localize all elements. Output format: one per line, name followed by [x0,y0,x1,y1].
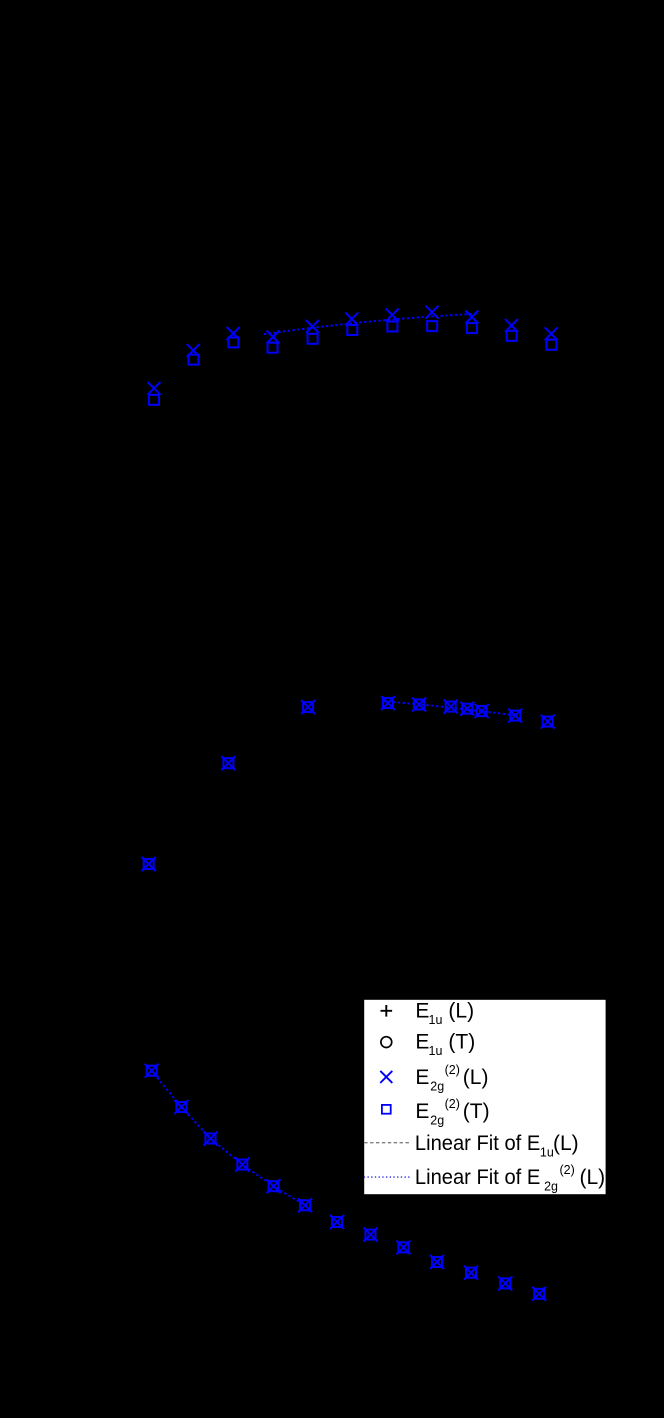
top panel E2g(2) (T) square marker 4 [268,343,278,353]
top panel E2g(2) (L) x-marker 7 [386,308,399,321]
top panel E2g(2) (T) square marker 5 [308,334,318,344]
svg-text:(L): (L) [580,1166,606,1189]
svg-text:Linear Fit of E: Linear Fit of E [415,1132,540,1155]
middle panel combined marker 6 [444,700,458,714]
svg-text:(T): (T) [448,1031,475,1054]
svg-text:(2): (2) [445,1063,460,1077]
legend text: E1u (L) [415,999,474,1027]
bottom panel combined marker 10 [430,1255,444,1269]
top panel E2g(2) (T) square marker 10 [507,331,517,341]
legend symbol: x E2g(2) (L) [380,1071,392,1083]
top panel E2g(2) (T) square marker 3 [228,337,238,347]
bottom panel combined marker 12 [498,1276,512,1290]
svg-text:2g: 2g [544,1180,558,1194]
legend text: E2g(2) (T) [415,1097,489,1128]
top panel E2g(2) (L) x-marker 5 [306,320,319,333]
legend line: dashed linear fit of E1u (L) [364,1142,409,1144]
top panel: linear fit line of E2g(2) (L), blue dotted [264,314,479,335]
top panel E2g(2) (T) square marker 11 [546,340,556,350]
middle panel combined marker 5 [412,698,426,712]
middle panel: linear fit line of E2g(2) (L), blue dotted [384,701,519,716]
top panel E2g(2) (L) x-marker 9 [465,311,478,324]
top panel E2g(2) (T) square marker 7 [387,322,397,332]
svg-text:E: E [415,1031,429,1054]
bottom panel combined marker 6 [298,1198,312,1212]
bottom panel combined marker 13 [532,1287,546,1301]
top panel E2g(2) (L) x-marker 6 [345,312,358,325]
bottom panel combined marker 5 [267,1179,281,1193]
top panel E2g(2) (T) square marker 2 [189,355,199,365]
bottom panel combined marker 3 [204,1132,218,1146]
svg-text:(2): (2) [445,1097,460,1111]
legend box [363,999,606,1195]
top panel E2g(2) (L) x-marker 3 [227,327,240,340]
svg-text:(L): (L) [448,999,474,1022]
svg-text:1u: 1u [540,1146,554,1160]
top panel E2g(2) (T) square marker 8 [427,321,437,331]
bottom panel combined marker 2 [174,1100,188,1114]
bottom panel: linear fit line of E2g(2) (L), blue dotted [151,1070,312,1209]
legend text: Linear Fit of E2g(2) (L) [415,1163,605,1193]
svg-text:1u: 1u [429,1044,443,1058]
svg-text:(2): (2) [560,1163,575,1177]
legend symbol: square E2g(2) (T) [382,1105,391,1114]
svg-text:1u: 1u [429,1013,443,1027]
top panel E2g(2) (T) square marker 9 [467,323,477,333]
bottom panel combined marker 8 [364,1228,378,1242]
middle panel combined marker 4 [381,696,395,710]
middle panel combined marker 10 [541,715,555,729]
middle panel combined marker 8 [475,704,489,718]
bottom panel combined marker 7 [330,1215,344,1229]
middle panel combined marker 7 [460,702,474,716]
legend text: Linear Fit of E1u (L) [415,1132,579,1160]
top panel E2g(2) (T) square marker 1 [149,395,159,405]
svg-text:E: E [415,999,429,1022]
top panel E2g(2) (L) x-marker 8 [426,306,439,319]
middle panel combined marker 1 [142,857,156,871]
svg-text:(T): (T) [463,1100,490,1123]
top panel E2g(2) (L) x-marker 10 [505,319,518,332]
middle panel combined marker 9 [508,709,522,723]
legend line: dotted linear fit of E2g(2) (L) [364,1176,410,1178]
svg-text:Linear Fit of E: Linear Fit of E [415,1166,540,1189]
top panel E2g(2) (T) square marker 6 [347,325,357,335]
middle panel combined marker 2 [221,756,235,770]
bottom panel combined marker 1 [145,1064,159,1078]
top panel E2g(2) (L) x-marker 11 [545,327,558,340]
svg-text:E: E [415,1066,429,1089]
bottom panel combined marker 4 [235,1158,249,1172]
middle panel combined marker 3 [301,700,315,714]
bottom panel combined marker 9 [396,1240,410,1254]
legend text: E2g(2) (L) [415,1063,488,1094]
top panel E2g(2) (L) x-marker 4 [267,331,280,344]
svg-text:2g: 2g [430,1113,444,1127]
svg-text:(L): (L) [463,1066,489,1089]
bottom panel combined marker 11 [464,1266,478,1280]
legend symbol: plus E1u (L) [381,1005,393,1017]
svg-text:2g: 2g [430,1079,444,1093]
top panel E2g(2) (L) x-marker 1 [148,382,161,395]
legend symbol: circle E1u (T) [381,1037,392,1048]
svg-text:E: E [415,1100,429,1123]
top panel E2g(2) (L) x-marker 2 [187,344,200,357]
svg-text:(L): (L) [553,1132,579,1155]
legend text: E1u (T) [415,1031,475,1059]
